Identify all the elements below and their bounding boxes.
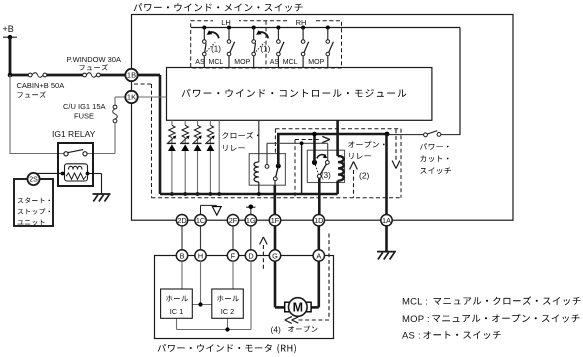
svg-text:(1): (1) bbox=[261, 45, 271, 54]
svg-text:IC 1: IC 1 bbox=[170, 307, 184, 316]
svg-text:D: D bbox=[248, 251, 253, 260]
svg-text:1K: 1K bbox=[127, 93, 136, 102]
svg-text:+B: +B bbox=[3, 24, 14, 34]
svg-text:M: M bbox=[293, 301, 303, 315]
svg-text:B: B bbox=[180, 251, 185, 260]
svg-text:MCL: MCL bbox=[209, 59, 224, 66]
svg-text:H: H bbox=[198, 251, 203, 260]
svg-text:C/U IG1 15A: C/U IG1 15A bbox=[63, 102, 106, 111]
svg-text:P.WINDOW 30A: P.WINDOW 30A bbox=[67, 55, 121, 64]
svg-text:MCL: MCL bbox=[283, 59, 298, 66]
svg-text:RH: RH bbox=[296, 18, 307, 27]
svg-text:2D: 2D bbox=[177, 216, 186, 225]
svg-text:2S: 2S bbox=[29, 177, 38, 184]
svg-text:AS: AS bbox=[195, 59, 205, 66]
svg-text:IG1 RELAY: IG1 RELAY bbox=[52, 129, 96, 139]
svg-text:1C: 1C bbox=[196, 216, 205, 225]
svg-text:1G: 1G bbox=[246, 216, 256, 225]
svg-text:1F: 1F bbox=[271, 216, 280, 225]
svg-text:LH: LH bbox=[221, 18, 231, 27]
svg-text:F: F bbox=[231, 251, 236, 260]
svg-text:MOP :: MOP : bbox=[402, 314, 430, 325]
svg-text:CABIN+B 50A: CABIN+B 50A bbox=[17, 81, 65, 90]
svg-text:(3): (3) bbox=[321, 171, 331, 180]
svg-text:IC 2: IC 2 bbox=[221, 307, 235, 316]
svg-text:MOP: MOP bbox=[308, 59, 324, 66]
svg-text:(1): (1) bbox=[211, 45, 221, 54]
svg-text:AS :: AS : bbox=[402, 330, 421, 341]
svg-text:G: G bbox=[272, 251, 278, 260]
svg-text:(2): (2) bbox=[359, 170, 370, 180]
svg-text:1A: 1A bbox=[382, 216, 391, 225]
svg-text:A: A bbox=[316, 251, 321, 260]
svg-text:FUSE: FUSE bbox=[74, 112, 94, 121]
svg-text:(4): (4) bbox=[271, 325, 282, 335]
svg-text:2F: 2F bbox=[229, 216, 238, 225]
svg-text:MCL :: MCL : bbox=[402, 296, 428, 307]
svg-text:1D: 1D bbox=[314, 216, 323, 225]
svg-text:MOP: MOP bbox=[234, 59, 250, 66]
svg-text:1B: 1B bbox=[127, 71, 136, 80]
svg-text:AS: AS bbox=[270, 59, 280, 66]
